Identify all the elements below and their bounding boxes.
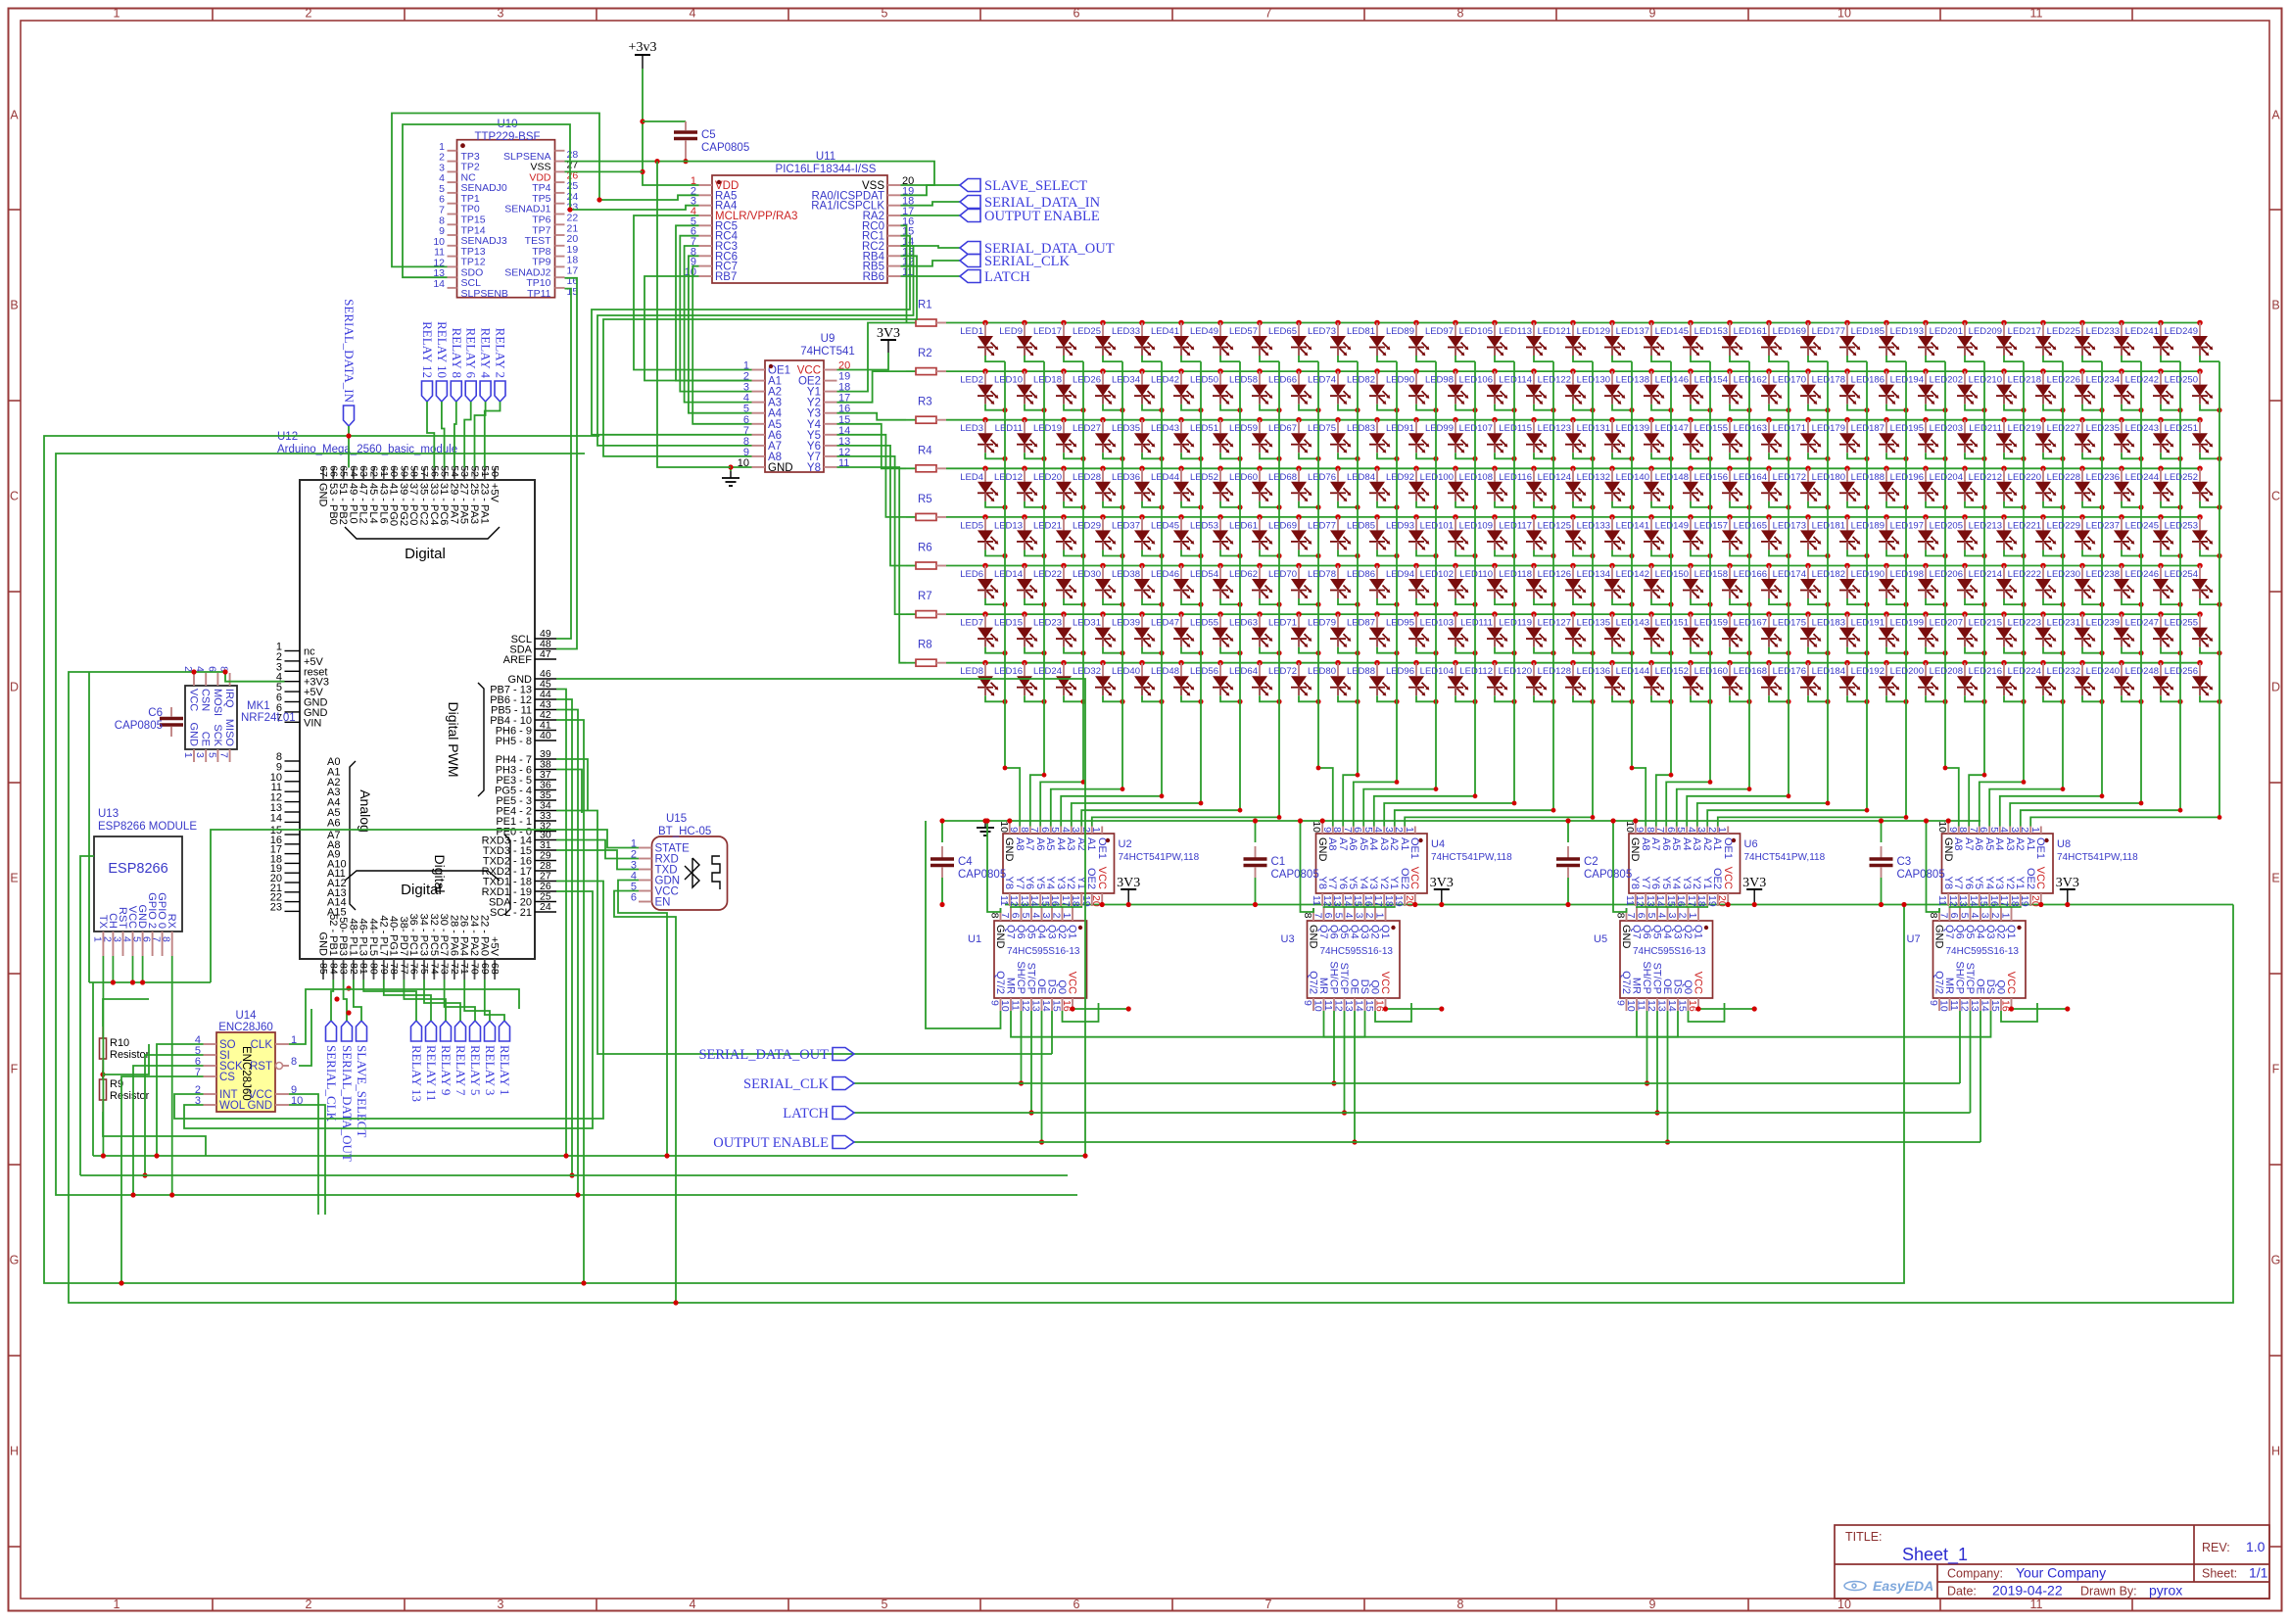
svg-text:Sheet:: Sheet: xyxy=(2202,1567,2237,1581)
svg-text:17: 17 xyxy=(1372,895,1384,907)
svg-text:LED72: LED72 xyxy=(1268,666,1297,677)
svg-text:LED215: LED215 xyxy=(1969,618,2002,629)
svg-text:4: 4 xyxy=(1686,827,1697,833)
svg-text:LED173: LED173 xyxy=(1773,520,1806,531)
svg-text:7: 7 xyxy=(1625,913,1637,919)
svg-text:SH/CP: SH/CP xyxy=(1015,961,1026,994)
svg-text:9: 9 xyxy=(1615,1000,1627,1006)
svg-text:5: 5 xyxy=(1049,827,1061,833)
svg-text:+5V: +5V xyxy=(489,936,501,957)
svg-text:Q1: Q1 xyxy=(1693,925,1704,939)
svg-text:15: 15 xyxy=(1989,1000,2001,1012)
svg-text:TITLE:: TITLE: xyxy=(1845,1530,1883,1544)
svg-text:11: 11 xyxy=(1936,895,1948,906)
svg-text:GND: GND xyxy=(317,932,329,957)
svg-text:Sheet_1: Sheet_1 xyxy=(1902,1545,1968,1565)
svg-text:C3: C3 xyxy=(1897,856,1912,868)
svg-text:8: 8 xyxy=(1457,7,1464,21)
svg-text:A4: A4 xyxy=(1681,837,1693,850)
svg-text:74HCT541PW,118: 74HCT541PW,118 xyxy=(1744,852,1826,863)
svg-text:LED56: LED56 xyxy=(1190,666,1218,677)
svg-text:A8: A8 xyxy=(1326,837,1338,850)
svg-text:LED68: LED68 xyxy=(1268,472,1297,483)
svg-text:LED181: LED181 xyxy=(1812,520,1845,531)
svg-text:LED164: LED164 xyxy=(1734,472,1767,483)
svg-text:LED170: LED170 xyxy=(1773,375,1806,386)
svg-text:ENC28J60: ENC28J60 xyxy=(240,1046,252,1101)
svg-text:RELAY 10: RELAY 10 xyxy=(435,321,450,378)
svg-text:14: 14 xyxy=(270,812,282,824)
svg-text:H: H xyxy=(10,1445,19,1458)
svg-text:LED49: LED49 xyxy=(1190,326,1218,337)
svg-text:SLPSENB: SLPSENB xyxy=(461,288,508,300)
svg-text:PH5 - 8: PH5 - 8 xyxy=(496,736,532,747)
svg-text:5: 5 xyxy=(1988,827,2000,833)
svg-text:LED226: LED226 xyxy=(2047,375,2080,386)
svg-text:H: H xyxy=(2271,1445,2280,1458)
svg-text:C: C xyxy=(2271,490,2280,503)
svg-text:AREF: AREF xyxy=(503,654,533,666)
svg-text:45 - PL4: 45 - PL4 xyxy=(367,483,379,524)
svg-text:50: 50 xyxy=(489,465,501,477)
svg-text:LED147: LED147 xyxy=(1655,423,1689,434)
svg-text:LED48: LED48 xyxy=(1151,666,1179,677)
svg-text:OE2: OE2 xyxy=(1711,868,1723,889)
svg-text:LED89: LED89 xyxy=(1386,326,1414,337)
svg-text:11: 11 xyxy=(2030,7,2043,21)
svg-text:A1: A1 xyxy=(1711,837,1723,850)
svg-text:3: 3 xyxy=(498,1598,504,1611)
svg-text:LATCH: LATCH xyxy=(783,1106,829,1122)
svg-text:15: 15 xyxy=(1665,895,1677,907)
svg-text:LED239: LED239 xyxy=(2086,618,2120,629)
svg-text:LED225: LED225 xyxy=(2047,326,2080,337)
svg-text:LED138: LED138 xyxy=(1616,375,1649,386)
svg-text:LED8: LED8 xyxy=(960,666,983,677)
svg-text:RELAY 9: RELAY 9 xyxy=(439,1045,453,1095)
svg-text:LED214: LED214 xyxy=(1969,569,2002,580)
svg-text:CLK: CLK xyxy=(251,1039,273,1051)
svg-text:LED40: LED40 xyxy=(1112,666,1140,677)
svg-text:LED70: LED70 xyxy=(1268,569,1297,580)
svg-text:SERIAL_DATA_IN: SERIAL_DATA_IN xyxy=(342,299,357,403)
svg-text:LED196: LED196 xyxy=(1890,472,1924,483)
svg-text:LED30: LED30 xyxy=(1073,569,1101,580)
svg-text:67: 67 xyxy=(317,465,329,477)
svg-text:SERIAL_CLK: SERIAL_CLK xyxy=(984,254,1071,269)
svg-text:DS: DS xyxy=(1984,979,1996,994)
svg-text:A4: A4 xyxy=(1993,837,2005,850)
svg-text:SLAVE_SELECT: SLAVE_SELECT xyxy=(355,1045,369,1137)
svg-text:6: 6 xyxy=(1352,827,1363,833)
svg-text:VCC: VCC xyxy=(1067,972,1078,994)
svg-text:Y4: Y4 xyxy=(1044,877,1056,889)
svg-text:RELAY 13: RELAY 13 xyxy=(409,1045,424,1102)
svg-text:LED93: LED93 xyxy=(1386,520,1414,531)
svg-text:LED203: LED203 xyxy=(1930,423,1963,434)
svg-text:LED191: LED191 xyxy=(1851,618,1884,629)
svg-text:LED63: LED63 xyxy=(1229,618,1258,629)
svg-text:1: 1 xyxy=(1716,827,1728,833)
svg-text:D: D xyxy=(10,681,19,694)
svg-text:2: 2 xyxy=(306,1598,312,1611)
svg-text:1: 1 xyxy=(182,752,194,758)
svg-text:12: 12 xyxy=(1321,895,1333,907)
svg-text:LED135: LED135 xyxy=(1577,618,1610,629)
svg-text:RB6: RB6 xyxy=(863,271,884,283)
svg-text:U12: U12 xyxy=(277,431,298,443)
svg-text:LED23: LED23 xyxy=(1033,618,1062,629)
svg-text:5: 5 xyxy=(206,752,217,758)
svg-text:LED241: LED241 xyxy=(2125,326,2159,337)
svg-text:A4: A4 xyxy=(1367,837,1379,850)
svg-text:4: 4 xyxy=(1969,913,1980,919)
svg-text:LED210: LED210 xyxy=(1969,375,2002,386)
svg-text:27 - PA5: 27 - PA5 xyxy=(458,483,470,524)
svg-text:8: 8 xyxy=(1928,913,1939,919)
svg-text:72: 72 xyxy=(449,963,460,975)
svg-text:Y2: Y2 xyxy=(1691,877,1702,889)
svg-text:LED78: LED78 xyxy=(1308,569,1336,580)
svg-text:LED86: LED86 xyxy=(1347,569,1375,580)
svg-text:18: 18 xyxy=(1383,895,1395,907)
svg-text:LED88: LED88 xyxy=(1347,666,1375,677)
svg-text:13: 13 xyxy=(1957,895,1969,907)
svg-text:8: 8 xyxy=(1331,827,1343,833)
svg-text:LED228: LED228 xyxy=(2047,472,2080,483)
svg-text:Q7/2: Q7/2 xyxy=(1620,971,1632,994)
svg-text:Q1: Q1 xyxy=(2005,925,2017,939)
svg-text:LED54: LED54 xyxy=(1190,569,1218,580)
svg-text:16: 16 xyxy=(1988,895,2000,907)
svg-text:Q7/2: Q7/2 xyxy=(1308,971,1319,994)
svg-text:ESP8266: ESP8266 xyxy=(108,861,167,877)
svg-text:A7: A7 xyxy=(1649,837,1661,850)
svg-text:8: 8 xyxy=(1457,1598,1464,1611)
svg-text:11: 11 xyxy=(1010,1000,1022,1011)
svg-text:14: 14 xyxy=(433,278,445,290)
svg-text:74HC595S16-13: 74HC595S16-13 xyxy=(1320,946,1394,957)
svg-text:LED244: LED244 xyxy=(2125,472,2159,483)
svg-text:17: 17 xyxy=(1060,895,1072,907)
svg-text:3V3: 3V3 xyxy=(877,326,900,341)
svg-text:ST/CP: ST/CP xyxy=(1338,963,1350,994)
svg-text:LED172: LED172 xyxy=(1773,472,1806,483)
svg-text:LED167: LED167 xyxy=(1734,618,1767,629)
svg-text:10: 10 xyxy=(1625,1000,1637,1012)
svg-text:LED81: LED81 xyxy=(1347,326,1375,337)
svg-text:LED130: LED130 xyxy=(1577,375,1610,386)
svg-text:U4: U4 xyxy=(1431,838,1445,850)
svg-text:LED100: LED100 xyxy=(1420,472,1454,483)
svg-text:R1: R1 xyxy=(918,300,932,311)
svg-text:RELAY 7: RELAY 7 xyxy=(453,1045,468,1096)
svg-text:LED200: LED200 xyxy=(1890,666,1924,677)
svg-text:MOSI: MOSI xyxy=(212,689,223,716)
svg-text:A4: A4 xyxy=(1055,837,1067,850)
svg-text:LED185: LED185 xyxy=(1851,326,1884,337)
svg-text:Q0: Q0 xyxy=(1056,979,1068,994)
svg-text:LED83: LED83 xyxy=(1347,423,1375,434)
svg-text:LED60: LED60 xyxy=(1229,472,1258,483)
svg-text:Q4: Q4 xyxy=(1975,925,1986,939)
svg-text:11: 11 xyxy=(998,895,1010,906)
svg-text:LED103: LED103 xyxy=(1420,618,1454,629)
svg-text:LED199: LED199 xyxy=(1890,618,1924,629)
svg-text:LED229: LED229 xyxy=(2047,520,2080,531)
svg-text:40: 40 xyxy=(540,730,551,741)
svg-text:LED111: LED111 xyxy=(1460,618,1493,629)
svg-text:LED174: LED174 xyxy=(1773,569,1806,580)
svg-text:18: 18 xyxy=(2009,895,2021,907)
svg-text:DS: DS xyxy=(1359,979,1370,994)
svg-text:9: 9 xyxy=(1008,827,1020,833)
svg-text:U14: U14 xyxy=(235,1010,257,1022)
svg-text:LED124: LED124 xyxy=(1538,472,1571,483)
svg-text:10: 10 xyxy=(998,821,1010,833)
svg-text:63: 63 xyxy=(358,465,369,477)
svg-text:Q6: Q6 xyxy=(1015,925,1026,939)
svg-text:10: 10 xyxy=(1936,821,1948,833)
svg-text:5: 5 xyxy=(882,1598,888,1611)
svg-text:EN: EN xyxy=(655,897,671,909)
svg-text:35 - PC2: 35 - PC2 xyxy=(418,483,430,525)
svg-text:LED153: LED153 xyxy=(1694,326,1728,337)
svg-text:31 - PC6: 31 - PC6 xyxy=(438,483,450,525)
svg-text:1: 1 xyxy=(1687,913,1698,919)
svg-text:Y7: Y7 xyxy=(1014,877,1026,889)
svg-text:Q0: Q0 xyxy=(1682,979,1694,994)
svg-text:12: 12 xyxy=(1646,1000,1657,1012)
svg-text:LED156: LED156 xyxy=(1694,472,1728,483)
svg-text:TP11: TP11 xyxy=(527,288,550,300)
svg-text:LED132: LED132 xyxy=(1577,472,1610,483)
svg-text:A3: A3 xyxy=(1378,837,1390,850)
svg-text:CS: CS xyxy=(219,1072,235,1083)
svg-text:7: 7 xyxy=(1938,913,1950,919)
svg-text:LED252: LED252 xyxy=(2165,472,2198,483)
svg-text:13: 13 xyxy=(1969,1000,1980,1012)
svg-text:LED129: LED129 xyxy=(1577,326,1610,337)
svg-text:LED46: LED46 xyxy=(1151,569,1179,580)
svg-text:LED10: LED10 xyxy=(994,375,1023,386)
svg-text:SERIAL_CLK: SERIAL_CLK xyxy=(324,1045,339,1122)
svg-text:LED53: LED53 xyxy=(1190,520,1218,531)
svg-text:CSN: CSN xyxy=(200,689,212,711)
svg-text:LED112: LED112 xyxy=(1459,666,1493,677)
svg-text:6: 6 xyxy=(1665,827,1677,833)
svg-text:77: 77 xyxy=(398,963,409,975)
svg-text:LED84: LED84 xyxy=(1347,472,1375,483)
svg-text:LED219: LED219 xyxy=(2008,423,2041,434)
svg-text:41 - PG0: 41 - PG0 xyxy=(388,483,400,526)
svg-text:4: 4 xyxy=(1372,827,1384,833)
svg-text:SCK: SCK xyxy=(212,724,223,746)
svg-text:LED12: LED12 xyxy=(994,472,1023,483)
svg-text:6: 6 xyxy=(1039,827,1051,833)
svg-text:Resistor: Resistor xyxy=(110,1090,150,1102)
svg-text:Q2: Q2 xyxy=(1056,925,1068,939)
svg-text:A2: A2 xyxy=(1388,837,1400,850)
svg-text:LED137: LED137 xyxy=(1616,326,1649,337)
svg-text:Y6: Y6 xyxy=(1963,877,1975,889)
svg-text:16: 16 xyxy=(1362,895,1374,907)
svg-text:CAP0805: CAP0805 xyxy=(1584,869,1632,881)
svg-text:7: 7 xyxy=(1265,1598,1272,1611)
svg-text:4: 4 xyxy=(1030,913,1042,919)
svg-text:LED177: LED177 xyxy=(1812,326,1845,337)
svg-text:Q6: Q6 xyxy=(1954,925,1966,939)
svg-text:LED109: LED109 xyxy=(1459,520,1493,531)
svg-text:4: 4 xyxy=(1656,913,1668,919)
svg-text:7: 7 xyxy=(1654,827,1666,833)
svg-text:LED152: LED152 xyxy=(1655,666,1689,677)
svg-text:40- PG1: 40- PG1 xyxy=(388,916,400,956)
svg-text:Y7: Y7 xyxy=(1952,877,1964,889)
svg-text:LED212: LED212 xyxy=(1969,472,2002,483)
svg-text:LED166: LED166 xyxy=(1734,569,1767,580)
svg-text:A8: A8 xyxy=(1014,837,1026,850)
svg-text:13: 13 xyxy=(1656,1000,1668,1012)
svg-text:LED189: LED189 xyxy=(1851,520,1884,531)
svg-text:1: 1 xyxy=(1061,913,1073,919)
svg-text:LED80: LED80 xyxy=(1308,666,1336,677)
svg-text:74HCT541: 74HCT541 xyxy=(800,346,855,358)
svg-text:LED140: LED140 xyxy=(1616,472,1649,483)
svg-text:SERIAL_CLK: SERIAL_CLK xyxy=(743,1076,830,1092)
svg-text:LED148: LED148 xyxy=(1655,472,1689,483)
svg-text:U9: U9 xyxy=(821,333,835,345)
svg-text:LED4: LED4 xyxy=(960,472,983,483)
svg-text:5: 5 xyxy=(1675,827,1687,833)
svg-text:LED1: LED1 xyxy=(960,326,983,337)
svg-text:LED67: LED67 xyxy=(1268,423,1297,434)
svg-text:62: 62 xyxy=(368,465,380,477)
svg-text:A7: A7 xyxy=(1024,837,1035,850)
svg-text:LED187: LED187 xyxy=(1851,423,1884,434)
svg-text:R7: R7 xyxy=(918,591,932,602)
svg-text:12: 12 xyxy=(1947,895,1959,907)
svg-text:LED43: LED43 xyxy=(1151,423,1179,434)
svg-text:Q4: Q4 xyxy=(1349,925,1360,939)
svg-text:13: 13 xyxy=(1030,1000,1042,1012)
svg-text:Y1: Y1 xyxy=(1701,877,1713,889)
svg-text:RELAY 3: RELAY 3 xyxy=(483,1045,498,1095)
svg-text:13: 13 xyxy=(1343,1000,1355,1012)
svg-text:U7: U7 xyxy=(1907,933,1921,945)
svg-text:E: E xyxy=(2271,872,2279,885)
svg-text:LED131: LED131 xyxy=(1577,423,1610,434)
svg-text:NRF24L01: NRF24L01 xyxy=(241,712,296,724)
svg-text:13: 13 xyxy=(1331,895,1343,907)
svg-text:LED243: LED243 xyxy=(2125,423,2159,434)
svg-text:7: 7 xyxy=(1342,827,1354,833)
svg-text:A: A xyxy=(2271,109,2280,122)
svg-text:8: 8 xyxy=(161,936,172,942)
svg-text:59: 59 xyxy=(398,465,409,477)
svg-text:GND: GND xyxy=(317,483,329,507)
svg-text:2: 2 xyxy=(306,7,312,21)
svg-text:LED14: LED14 xyxy=(994,569,1023,580)
svg-text:47: 47 xyxy=(540,648,551,660)
svg-text:Y2: Y2 xyxy=(1065,877,1076,889)
svg-text:15: 15 xyxy=(1677,1000,1689,1012)
svg-text:SH/CP: SH/CP xyxy=(1954,961,1966,994)
svg-text:6: 6 xyxy=(1010,913,1022,919)
svg-text:F: F xyxy=(2272,1063,2280,1076)
svg-text:3V3: 3V3 xyxy=(2056,876,2079,890)
svg-text:15: 15 xyxy=(1363,1000,1375,1012)
svg-text:18: 18 xyxy=(1695,895,1707,907)
svg-text:LED197: LED197 xyxy=(1890,520,1924,531)
svg-text:LED231: LED231 xyxy=(2047,618,2080,629)
svg-text:6: 6 xyxy=(1073,7,1080,21)
svg-text:LED116: LED116 xyxy=(1499,472,1532,483)
svg-text:38- PD7: 38- PD7 xyxy=(398,917,409,956)
svg-text:LED15: LED15 xyxy=(994,618,1023,629)
svg-text:REV:: REV: xyxy=(2202,1541,2230,1554)
svg-text:LED235: LED235 xyxy=(2086,423,2120,434)
svg-text:A5: A5 xyxy=(1358,837,1369,850)
svg-text:R2: R2 xyxy=(918,348,932,359)
svg-text:A5: A5 xyxy=(1044,837,1056,850)
svg-text:LED136: LED136 xyxy=(1577,666,1610,677)
svg-text:LED247: LED247 xyxy=(2125,618,2159,629)
svg-text:U3: U3 xyxy=(1281,933,1295,945)
svg-text:65: 65 xyxy=(338,465,350,477)
svg-text:LED248: LED248 xyxy=(2125,666,2159,677)
svg-text:3: 3 xyxy=(194,752,206,758)
svg-text:DS: DS xyxy=(1046,979,1058,994)
svg-text:3: 3 xyxy=(1070,827,1081,833)
svg-text:A3: A3 xyxy=(1691,837,1702,850)
svg-text:8: 8 xyxy=(1615,913,1627,919)
svg-text:LED205: LED205 xyxy=(1930,520,1963,531)
svg-text:C5: C5 xyxy=(701,129,716,141)
svg-text:14: 14 xyxy=(1968,895,1980,907)
svg-text:SERIAL_DATA_OUT: SERIAL_DATA_OUT xyxy=(340,1045,355,1162)
svg-text:76: 76 xyxy=(408,963,420,975)
svg-text:3V3: 3V3 xyxy=(1430,876,1454,890)
svg-text:R8: R8 xyxy=(918,640,932,651)
svg-text:LED238: LED238 xyxy=(2086,569,2120,580)
svg-text:3: 3 xyxy=(1383,827,1395,833)
svg-text:LED52: LED52 xyxy=(1190,472,1218,483)
svg-text:7: 7 xyxy=(1312,913,1324,919)
svg-text:LED195: LED195 xyxy=(1890,423,1924,434)
svg-text:LED41: LED41 xyxy=(1151,326,1179,337)
svg-text:A3: A3 xyxy=(2004,837,2016,850)
svg-text:LED36: LED36 xyxy=(1112,472,1140,483)
svg-text:MR: MR xyxy=(1317,978,1329,994)
svg-text:7: 7 xyxy=(1968,827,1980,833)
svg-text:LED24: LED24 xyxy=(1033,666,1062,677)
svg-text:OE: OE xyxy=(1035,979,1047,994)
svg-text:49 - PL0: 49 - PL0 xyxy=(347,483,358,524)
svg-text:RELAY 6: RELAY 6 xyxy=(464,328,479,379)
svg-text:OE2: OE2 xyxy=(2025,868,2036,889)
svg-text:A6: A6 xyxy=(1660,837,1672,850)
svg-text:LED121: LED121 xyxy=(1538,326,1571,337)
svg-text:LED87: LED87 xyxy=(1347,618,1375,629)
svg-text:42 - PL7: 42 - PL7 xyxy=(377,915,389,956)
svg-text:VCC: VCC xyxy=(2005,972,2017,994)
svg-text:69: 69 xyxy=(479,963,491,975)
svg-text:LED151: LED151 xyxy=(1655,618,1689,629)
svg-text:GND: GND xyxy=(1933,925,1945,949)
svg-text:GND: GND xyxy=(247,1100,272,1112)
svg-text:10: 10 xyxy=(1938,1000,1950,1012)
